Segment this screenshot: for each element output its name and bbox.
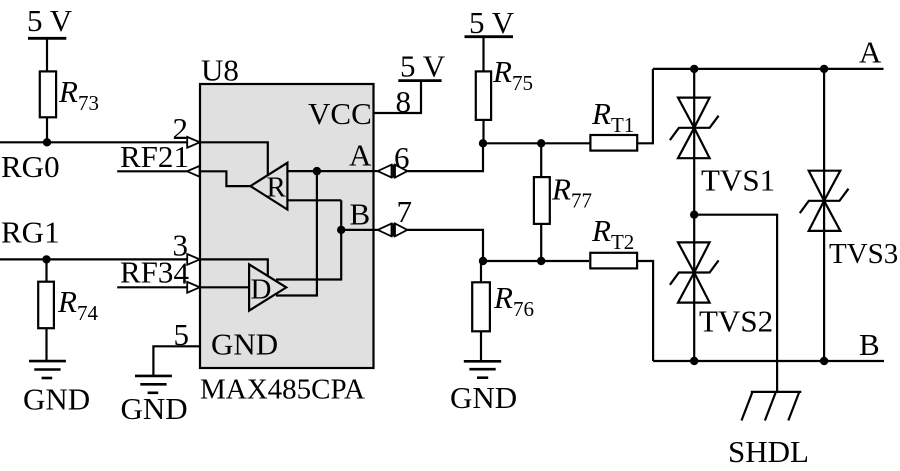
resistor R77 [534, 177, 550, 224]
node junction A/TVS1 [690, 65, 698, 73]
svg-text:B: B [859, 327, 880, 362]
node junction RG0/R73 [43, 138, 51, 146]
pin 1 arrow pointing left [187, 166, 200, 177]
wire A node rail [483, 142, 590, 144]
chassis ground symbol SHDL [742, 392, 802, 421]
wire R77 bottom [540, 224, 542, 261]
wire pin 2 internal (RE enable) [200, 142, 268, 174]
svg-text:1: 1 [174, 139, 190, 174]
ground symbol (R74) [29, 361, 66, 378]
wire R77 top [540, 143, 542, 177]
wire RG1 to pin 3 [0, 258, 187, 260]
wire A to TVS3 through symbol to B rail [823, 69, 825, 361]
wire pin 6 to A node [407, 143, 483, 171]
wire B node rail [483, 260, 589, 262]
wire A line internal [287, 170, 373, 172]
wire A branch vertical to driver lower output [276, 171, 317, 295]
node junction B/TVS2 [690, 357, 698, 365]
wire pin 1 (RO) out of chip [117, 170, 187, 172]
power 5V rail (VCC pin 8) [398, 49, 445, 84]
svg-text:GND: GND [23, 382, 90, 417]
svg-text:U8: U8 [201, 53, 239, 88]
svg-text:5 V: 5 V [469, 5, 515, 40]
wire pin 4 (DI) [117, 286, 187, 288]
svg-text:D: D [251, 274, 272, 306]
svg-text:A: A [859, 35, 882, 70]
TVS diode TVS2 [670, 242, 719, 302]
resistor R74 [38, 282, 54, 329]
node junction R77 top [537, 139, 545, 147]
wire A terminal rail [653, 68, 884, 70]
svg-text:7: 7 [397, 194, 413, 229]
svg-text:MAX485CPA: MAX485CPA [200, 374, 365, 406]
svg-text:RF2: RF2 [120, 139, 173, 174]
svg-text:GND: GND [121, 391, 188, 426]
TVS diode TVS1 [670, 98, 719, 159]
wire receiver B input [287, 199, 341, 201]
node junction R77 bottom [537, 257, 545, 265]
resistor R76 [472, 282, 490, 331]
svg-text:5 V: 5 V [400, 49, 446, 84]
node junction B/TVS3 [820, 357, 828, 365]
pin 6 bidirectional arrow [374, 164, 408, 177]
wire midpoint to TVS2 through symbol to B rail [693, 215, 695, 361]
svg-text:R75: R75 [492, 54, 533, 95]
svg-text:R73: R73 [58, 74, 99, 115]
svg-text:R74: R74 [57, 284, 98, 325]
resistor R75 [476, 71, 491, 120]
pin 4 arrow into chip [187, 282, 200, 293]
wire A to TVS1 through symbol [693, 69, 695, 215]
svg-text:8: 8 [396, 84, 412, 119]
op-amp U8 chip body MAX485CPA [200, 84, 374, 368]
power 5V rail (R75) [465, 5, 515, 71]
wire R76 top [480, 261, 482, 282]
svg-text:GND: GND [211, 327, 278, 362]
svg-text:A: A [349, 138, 372, 173]
pin 2 arrow into chip [187, 137, 200, 148]
svg-text:R77: R77 [551, 172, 592, 213]
svg-text:GND: GND [450, 380, 517, 415]
svg-text:R: R [267, 172, 287, 204]
wire R73 bottom to RG0 node [46, 117, 48, 142]
svg-text:6: 6 [394, 140, 410, 175]
power 5V rail (left, for R73) [27, 3, 73, 71]
wire pin 4 internal (DI) [200, 286, 249, 288]
svg-text:TVS3: TVS3 [829, 238, 898, 270]
node junction A/R75 [479, 139, 487, 147]
wire RT2 to B terminal rail [637, 261, 653, 361]
wire RG0 to pin 2 [0, 141, 187, 143]
svg-text:R76: R76 [493, 280, 534, 321]
wire pin 3 internal (DE enable) [200, 259, 268, 276]
wire B terminal rail [653, 360, 884, 362]
driver triangle D [249, 264, 286, 310]
wire RG1 node to R74 [45, 259, 47, 281]
wire pin 1 internal (RO to receiver output) [200, 171, 250, 186]
svg-text:SHDL: SHDL [728, 434, 809, 469]
node junction TVS1/TVS2/SHDL [690, 211, 698, 219]
pin 7 bidirectional arrow [374, 223, 408, 236]
receiver triangle R [250, 163, 287, 210]
ground symbol (R76) [464, 361, 501, 377]
wire R75 to A node [482, 120, 484, 143]
TVS diode TVS3 [800, 171, 849, 231]
svg-text:RF3: RF3 [120, 255, 173, 290]
node junction B/R76 [479, 257, 487, 265]
node junction A internal [313, 167, 321, 175]
wire pin 8 VCC to 5V [374, 81, 422, 113]
svg-text:5 V: 5 V [27, 3, 73, 38]
pin 3 arrow into chip [187, 254, 200, 265]
svg-text:B: B [350, 197, 371, 232]
svg-text:RT1: RT1 [591, 96, 634, 137]
node junction B internal [337, 226, 345, 234]
wire RT1 to A terminal rail [637, 69, 653, 143]
ground symbol (pin 5) [135, 376, 172, 393]
resistor RT2 [590, 253, 637, 269]
wire B line internal to pin 7 [341, 229, 373, 231]
svg-text:RT2: RT2 [591, 213, 634, 254]
svg-text:VCC: VCC [308, 96, 372, 131]
svg-text:TVS1: TVS1 [701, 163, 775, 198]
wire pin 7 to B node [407, 230, 483, 261]
wire pin 5 (GND) [153, 346, 200, 376]
wire R76 to ground [480, 331, 482, 361]
svg-text:RG1: RG1 [1, 215, 60, 250]
svg-text:RG0: RG0 [1, 149, 60, 184]
wire B branch vertical to driver upper output [276, 200, 341, 279]
node junction A/TVS3 [820, 65, 828, 73]
node junction RG1/R74 [42, 255, 50, 263]
resistor R73 [40, 71, 56, 117]
resistor RT1 [590, 135, 637, 151]
wire midpoint to SHDL [694, 215, 777, 392]
wire R74 to ground [45, 328, 47, 361]
svg-text:TVS2: TVS2 [699, 304, 773, 339]
